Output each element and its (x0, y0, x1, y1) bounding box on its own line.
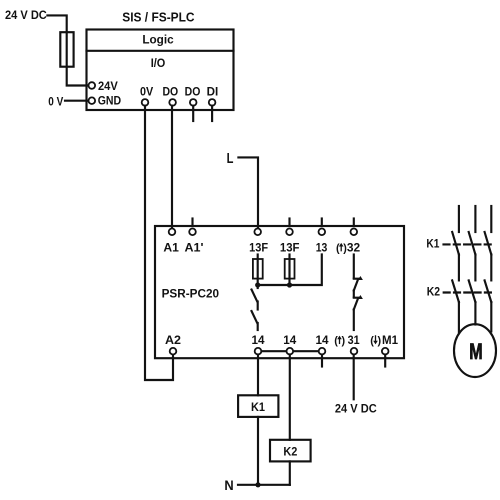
svg-text:DO: DO (162, 85, 178, 99)
svg-text:): ) (342, 335, 346, 347)
svg-text:(: ( (334, 335, 338, 347)
node L label (227, 151, 234, 167)
wire stub above A1' (191, 219, 193, 227)
svg-text:A1: A1 (163, 240, 179, 254)
terminal 31 (334, 333, 360, 354)
terminal A1 (163, 229, 179, 255)
svg-text:Logic: Logic (142, 33, 174, 47)
wire stub above 13F (second) (288, 219, 290, 227)
wires from K2 contacts to motor (459, 302, 491, 332)
terminal DI of PLC (207, 85, 219, 106)
svg-text:31: 31 (348, 333, 360, 347)
wire from L down to terminal 13F (238, 157, 258, 228)
svg-text:32: 32 (347, 240, 361, 254)
wire 14 (first) down to K1 coil (257, 355, 259, 396)
terminal 0V of PLC (140, 85, 153, 106)
wire stub below DI (211, 106, 213, 121)
label SIS / FS-PLC (122, 10, 195, 25)
svg-text:SIS / FS-PLC: SIS / FS-PLC (122, 10, 195, 25)
svg-text:(: ( (336, 242, 340, 254)
svg-text:M1: M1 (382, 333, 398, 347)
node 24 V DC (bottom) label (335, 401, 377, 415)
PLC box SIS / FS-PLC (87, 30, 234, 111)
node 24 V DC supply label (5, 8, 47, 22)
wire from 0 V to GND terminal (65, 100, 88, 102)
wire stub below M1 (384, 355, 386, 367)
wire 0V of PLC down to A2 (left route) (145, 106, 173, 380)
terminal 32 (336, 229, 361, 255)
svg-text:K1: K1 (426, 236, 439, 250)
junction dot at fuse 1 output (255, 282, 260, 287)
node 0 V label (48, 94, 63, 108)
coil K1 (238, 395, 278, 417)
terminal GND (89, 94, 122, 108)
svg-text:DO: DO (185, 85, 201, 99)
svg-text:14: 14 (316, 333, 329, 347)
svg-text:13F: 13F (249, 240, 268, 254)
safety contact (double NO) between 13F bus and 14 (252, 285, 258, 330)
svg-text:K1: K1 (251, 400, 265, 414)
terminal 13F (first) (249, 229, 268, 255)
label K2 with linkage dashes (427, 285, 493, 299)
wire 31 down to 24 V DC (353, 355, 355, 400)
wire stub below DO 2 (192, 106, 194, 121)
terminal 13F (second) (280, 229, 300, 255)
svg-text:GND: GND (98, 94, 122, 108)
wire N bus (238, 484, 290, 486)
terminal DO 2 of PLC (185, 85, 201, 106)
svg-text:A2: A2 (165, 333, 181, 347)
junction dot at K1/N (255, 482, 260, 487)
wire K2 coil down to N (289, 461, 291, 484)
svg-text:N: N (224, 478, 233, 493)
fuse 13F channel 1 (with wire) (253, 255, 263, 286)
fuse 13F channel 2 (with wire) (285, 255, 295, 286)
svg-text:0 V: 0 V (48, 94, 63, 108)
svg-text:M: M (469, 339, 482, 364)
svg-text:DI: DI (207, 85, 219, 99)
terminal 14 (third) (316, 333, 329, 354)
relay box PSR-PC20 (155, 226, 404, 358)
wires between K1 and K2 contacts (459, 255, 491, 281)
wire from 13 joining fuse outputs (258, 255, 322, 286)
svg-text:I/O: I/O (151, 56, 166, 70)
svg-text:K2: K2 (283, 445, 297, 459)
terminal M1 (370, 333, 398, 354)
terminal DO 1 of PLC (162, 85, 178, 106)
terminal A1' (185, 229, 204, 255)
svg-text:14: 14 (252, 333, 265, 347)
wire stub above 32 (353, 219, 355, 227)
label I/O (151, 56, 166, 70)
contactor K2 main contacts (3 phases) (452, 280, 491, 302)
motor M (454, 324, 496, 377)
wire K1 coil down to N (257, 417, 259, 485)
svg-text:): ) (378, 335, 382, 347)
label PSR-PC20 (162, 286, 220, 300)
mirror contact (double NC) between 32 and 31 (354, 255, 363, 331)
wire 14 (second) down to K2 coil (289, 355, 291, 440)
terminal 14 (first) (252, 333, 265, 354)
wire stub above 13 (321, 219, 323, 227)
svg-text:13F: 13F (280, 240, 300, 254)
terminal 24V (89, 79, 118, 93)
svg-text:24 V DC: 24 V DC (335, 401, 377, 415)
junction dot at fuse 2 output (287, 282, 292, 287)
svg-text:24 V DC: 24 V DC (5, 8, 47, 22)
svg-text:PSR-PC20: PSR-PC20 (162, 286, 220, 300)
svg-text:L: L (227, 151, 234, 167)
terminal 14 (second) (283, 333, 296, 354)
wire from 24 V DC through fuse to 24V terminal (47, 15, 87, 85)
wire stub below 14 (third) (321, 355, 323, 367)
contactor K1 main contacts (3 phases) (452, 206, 491, 255)
terminal A2 (165, 333, 181, 354)
svg-text:14: 14 (283, 333, 296, 347)
svg-text:A1': A1' (185, 240, 204, 254)
svg-text:24V: 24V (98, 79, 118, 93)
svg-text:K2: K2 (427, 285, 441, 299)
svg-text:0V: 0V (140, 85, 153, 99)
svg-text:13: 13 (316, 240, 328, 254)
bus wire connecting the three 14 terminals (258, 350, 322, 352)
label K1 with linkage dashes (426, 236, 493, 250)
node N label (224, 478, 233, 493)
coil K2 (270, 440, 311, 462)
wire DO 1 down to A1 (171, 106, 173, 228)
fuse F1 (60, 32, 73, 66)
terminal 13 (316, 229, 328, 255)
label Logic (142, 33, 174, 47)
